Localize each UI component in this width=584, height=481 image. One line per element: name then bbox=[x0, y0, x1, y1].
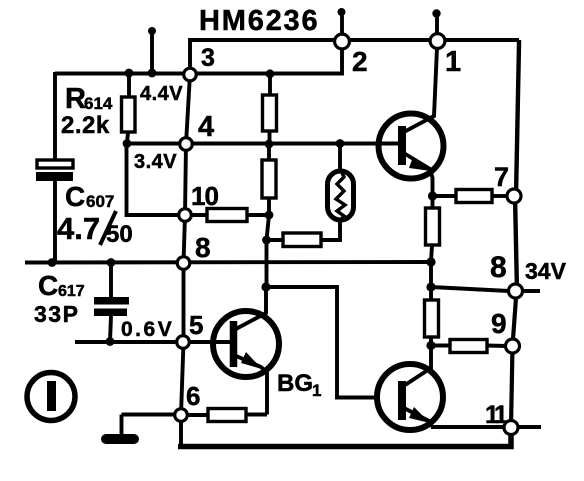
lamp top lead bbox=[338, 144, 342, 173]
resistor bottom lead bbox=[268, 131, 272, 144]
wire right bus pin9 to pin11 bbox=[511, 346, 513, 427]
svg-text:8: 8 bbox=[195, 232, 211, 263]
transistor Q3 emitter arrow bbox=[409, 407, 430, 423]
lamp / thermistor body bbox=[328, 171, 354, 220]
svg-text:8: 8 bbox=[490, 251, 507, 284]
wire right bus down from top corner to pin 7 bbox=[516, 40, 519, 196]
resistor to pin 7 bbox=[456, 190, 492, 203]
junction dot bbox=[336, 139, 345, 148]
capacitor C617 bottom plate bbox=[94, 309, 127, 317]
wire resistor to pin9 bbox=[487, 344, 506, 348]
lamp filament zigzag bbox=[336, 169, 345, 222]
wire pin5 row bbox=[75, 340, 177, 344]
junction dot bbox=[107, 258, 116, 267]
ground bar bbox=[106, 434, 134, 444]
wire x267 column down bbox=[267, 215, 270, 287]
resistor bottom lead bbox=[431, 245, 432, 262]
resistor vertical x269 bbox=[262, 160, 276, 198]
junction dot bbox=[266, 69, 275, 78]
pin 4 circle bbox=[180, 138, 193, 151]
bottom bus wire bbox=[178, 434, 511, 447]
svg-text:4.4V: 4.4V bbox=[140, 83, 183, 105]
junction dot bbox=[106, 337, 115, 346]
pin 10 circle bbox=[179, 209, 192, 222]
wire L from R614 bottom to pin 10 bbox=[127, 144, 180, 216]
svg-text:614: 614 bbox=[84, 94, 113, 113]
junction dot bbox=[426, 282, 435, 291]
symbol circled 1 bbox=[27, 373, 75, 421]
svg-text:7: 7 bbox=[494, 162, 509, 192]
resistor vertical below Q-top emitter bbox=[426, 208, 440, 245]
wire y287 left segment to Q3 base bbox=[266, 287, 379, 398]
svg-text:9: 9 bbox=[491, 308, 507, 339]
svg-text:33P: 33P bbox=[34, 301, 79, 327]
pin 7 circle bbox=[507, 189, 521, 203]
wire pin10 row to resistor bbox=[185, 213, 207, 217]
wire emitter to resistor bbox=[433, 194, 457, 198]
svg-text:1: 1 bbox=[312, 381, 321, 400]
resistor right of pin 10 bbox=[207, 209, 247, 222]
wire main left column through pins 3,4,10,8,5,6 bbox=[181, 74, 190, 446]
node terminal blob bbox=[148, 27, 156, 35]
capacitor C607 top plate bbox=[37, 160, 73, 168]
svg-text:2: 2 bbox=[352, 46, 368, 77]
wire to resistor pin9 bbox=[431, 344, 450, 348]
pin 1 node circle bbox=[430, 34, 445, 49]
svg-text:C: C bbox=[38, 270, 58, 301]
svg-text:BG: BG bbox=[277, 370, 313, 397]
svg-text:2.2k: 2.2k bbox=[61, 112, 110, 139]
junction dot bbox=[123, 139, 132, 148]
svg-text:0.6V: 0.6V bbox=[121, 318, 174, 341]
transistor Q3 base bar bbox=[398, 381, 406, 420]
capacitor C617 top lead bbox=[109, 262, 113, 297]
resistor R614 bbox=[122, 97, 136, 132]
transistor Q-top base bar bbox=[398, 126, 406, 165]
junction dot bbox=[265, 211, 274, 220]
svg-text:3: 3 bbox=[201, 44, 215, 72]
pin 3 circle bbox=[184, 68, 197, 81]
resistor bottom lead bbox=[429, 337, 433, 346]
svg-text:3.4V: 3.4V bbox=[134, 151, 177, 173]
svg-text:6: 6 bbox=[186, 381, 200, 411]
svg-text:HM6236: HM6236 bbox=[199, 5, 319, 37]
wire stub above node 1 bbox=[435, 14, 439, 33]
wire stub right of pin8 bbox=[522, 289, 540, 293]
transistor BG1 emitter arrow bbox=[241, 352, 262, 369]
svg-text:10: 10 bbox=[191, 181, 218, 211]
svg-text:617: 617 bbox=[58, 283, 85, 300]
svg-text:50: 50 bbox=[106, 221, 133, 248]
transistor Q3 emitter bbox=[402, 407, 431, 427]
wire right bus pin7 to pin8 bbox=[515, 196, 517, 291]
capacitor C607 bottom plate bbox=[36, 172, 73, 181]
transistor BG1 base bar bbox=[230, 321, 238, 367]
wire resistor to pin7 bbox=[492, 194, 508, 198]
junction dot bbox=[426, 341, 435, 350]
resistor vertical x432 top lead bbox=[431, 196, 435, 208]
resistor to pin 9 bbox=[450, 340, 487, 353]
svg-text:4.7: 4.7 bbox=[57, 211, 100, 246]
node terminal blob bbox=[432, 9, 440, 17]
transistor BG1 emitter bbox=[234, 355, 267, 415]
svg-text:34V: 34V bbox=[525, 258, 567, 284]
svg-text:C: C bbox=[65, 181, 85, 212]
wire to lamp resistor bbox=[267, 238, 284, 242]
pin 9 circle bbox=[506, 339, 520, 353]
wire pin3 to node2 row bbox=[55, 44, 342, 74]
junction dot bbox=[426, 257, 435, 266]
transistor Q-top collector bbox=[402, 48, 437, 133]
transistor Q3 collector bbox=[402, 346, 431, 388]
resistor vertical x269 top lead bbox=[267, 144, 271, 160]
wire stub terminal above-left of pin3 bbox=[150, 31, 154, 73]
wire pin4 row bbox=[127, 142, 398, 146]
wire pin6 to resistor bbox=[187, 413, 208, 417]
resistor R614 bottom lead bbox=[127, 132, 128, 144]
junction dot bbox=[148, 69, 157, 78]
pin 6 circle bbox=[175, 409, 188, 422]
svg-text:1: 1 bbox=[445, 46, 461, 78]
junction dot bbox=[265, 140, 274, 149]
transistor Q3 circle bbox=[377, 364, 443, 430]
resistor top lead bbox=[429, 287, 433, 300]
transistor Q-top emitter arrow bbox=[409, 157, 431, 171]
resistor below lamp bbox=[283, 233, 321, 247]
wire x431 down to y287 bbox=[429, 262, 433, 287]
wire stub above node 2 bbox=[340, 12, 344, 33]
wire ground drop bbox=[120, 415, 124, 435]
pin 8 circle bbox=[177, 257, 190, 270]
wire C607 bottom lead bbox=[53, 180, 57, 263]
junction dot bbox=[48, 258, 57, 267]
wire right bus pin8 to pin9 bbox=[513, 291, 517, 346]
junction dot bbox=[262, 236, 271, 245]
svg-text:5: 5 bbox=[189, 310, 203, 340]
wire lamp bottom lead bbox=[321, 220, 340, 240]
pin 5 circle bbox=[177, 336, 190, 349]
wire pin6 left to ground bbox=[122, 413, 176, 417]
resistor R614 top lead bbox=[127, 73, 131, 97]
transistor BG1 base lead bbox=[189, 340, 230, 344]
resistor vertical between pin3 row and pin4 row bbox=[263, 95, 277, 131]
svg-text:607: 607 bbox=[86, 192, 114, 211]
wire left branch down to C607 bbox=[53, 72, 57, 161]
junction dot BG1 collector bbox=[261, 282, 270, 291]
wire stub right of pin 11 bbox=[518, 425, 541, 429]
pin 2 node circle bbox=[335, 34, 350, 49]
resistor right of pin 6 bbox=[208, 409, 246, 422]
capacitor C617 bottom lead bbox=[110, 316, 111, 342]
junction dot emitter bbox=[428, 191, 437, 200]
wire y287 to pin8 right bbox=[431, 287, 509, 291]
transistor BG1 collector bbox=[234, 287, 266, 330]
pin 11 circle bbox=[504, 421, 518, 435]
wire resistor to BG1 emitter column bbox=[246, 413, 267, 417]
resistor at node3-4 top lead bbox=[268, 74, 272, 95]
wire pin8 row bbox=[25, 260, 431, 264]
transistor BG1 circle bbox=[213, 311, 279, 377]
transistor Q-top emitter bbox=[402, 152, 433, 196]
wire emitter to pin 11 bbox=[431, 425, 504, 429]
pin 8 right circle bbox=[509, 284, 523, 298]
capacitor C617 top plate bbox=[94, 297, 129, 305]
wire resistor to x269 column bbox=[247, 213, 269, 217]
wire top bus from pin3 corner to right corner bbox=[190, 40, 519, 70]
resistor vertical x431 (9 branch) bbox=[425, 300, 439, 337]
svg-text:R: R bbox=[65, 83, 86, 115]
resistor bottom lead bbox=[267, 198, 271, 215]
node terminal blob bbox=[338, 8, 346, 16]
junction dot bbox=[125, 69, 134, 78]
transistor Q-top circle bbox=[379, 114, 444, 179]
svg-text:4: 4 bbox=[198, 111, 214, 143]
